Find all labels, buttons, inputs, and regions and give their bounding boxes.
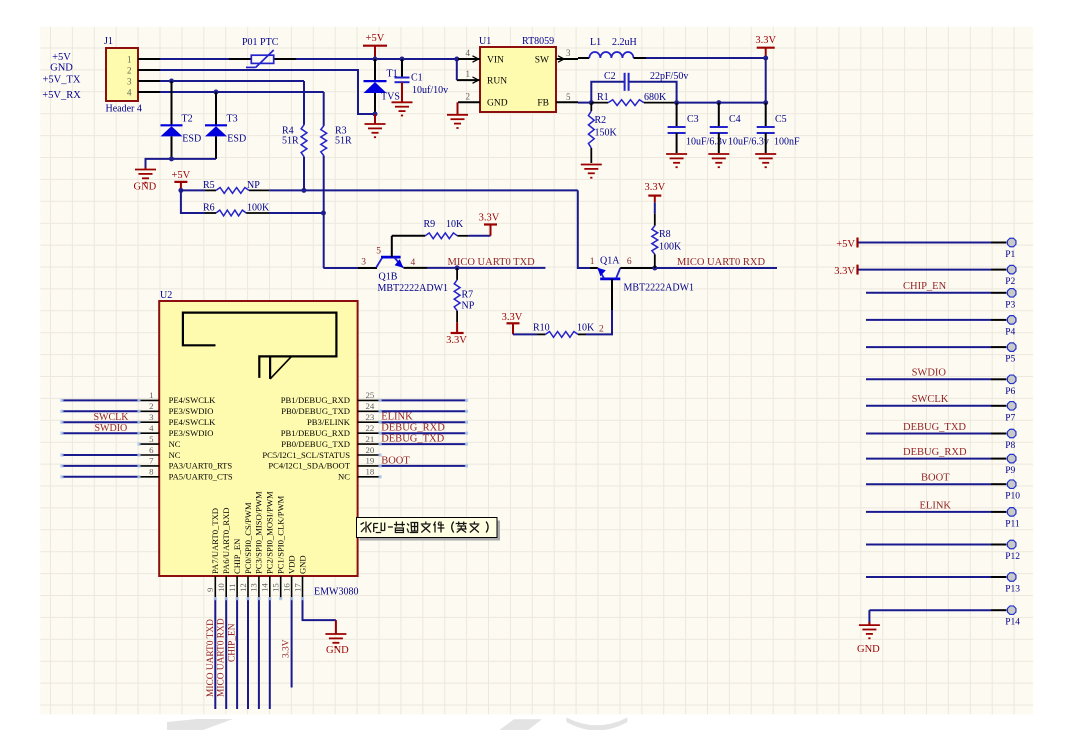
junction C2/C3 node	[674, 100, 679, 105]
junction R7 top	[455, 265, 460, 270]
svg-text:3.3V: 3.3V	[644, 182, 665, 193]
svg-text:1: 1	[149, 390, 153, 400]
svg-text:PE3/SWDIO: PE3/SWDIO	[169, 428, 214, 438]
svg-text:20: 20	[366, 445, 375, 455]
watermark tooltip box	[360, 521, 501, 541]
svg-text:MICO UART0 RXD: MICO UART0 RXD	[217, 618, 227, 697]
U2 pin 11 CHIP_EN	[236, 576, 238, 599]
svg-text:22: 22	[366, 423, 375, 433]
svg-text:CHIP_EN: CHIP_EN	[232, 538, 242, 574]
test pad P5	[866, 346, 991, 348]
resistor R1 680K	[591, 102, 608, 104]
svg-text:PC3/SPI0_MISO/PWM: PC3/SPI0_MISO/PWM	[254, 491, 264, 574]
svg-text:14: 14	[260, 583, 270, 592]
svg-text:PB3/ELINK: PB3/ELINK	[307, 417, 351, 427]
svg-text:U1: U1	[479, 36, 491, 47]
svg-text:2: 2	[599, 325, 604, 335]
svg-text:15: 15	[271, 583, 281, 592]
U2 pin 4 PE3/SWDIO	[139, 432, 159, 434]
wire U2 pin 24	[380, 410, 466, 412]
svg-text:PE4/SWCLK: PE4/SWCLK	[169, 417, 217, 427]
svg-text:TVS: TVS	[381, 92, 400, 103]
power symbol +5V middle	[174, 181, 187, 183]
wire U2 pin 25	[380, 399, 466, 401]
junction +5V/R5/R6	[178, 188, 183, 193]
module U2 EMW3080	[159, 301, 357, 576]
svg-text:5: 5	[376, 247, 381, 257]
svg-text:P12: P12	[1005, 552, 1020, 562]
U1 pin stubs and numbers	[458, 58, 480, 60]
junction R6 / R3 net	[321, 211, 326, 216]
U2 pin 19 PC4/I2C1_SDA/BOOT	[358, 465, 381, 467]
svg-text:23: 23	[366, 412, 375, 422]
svg-text:P3: P3	[1005, 300, 1015, 310]
svg-text:GND: GND	[297, 555, 307, 574]
test pad P8	[866, 433, 991, 435]
U2 pin 18 NC	[358, 476, 381, 478]
power symbol 3.3V at P2	[856, 265, 858, 275]
svg-text:R2: R2	[595, 115, 607, 126]
wire U2 pin 3	[62, 421, 139, 423]
ground below C3	[666, 153, 687, 155]
power symbol 3.3V below R7 (inverted)	[456, 322, 458, 333]
resistor R10 10K	[513, 333, 537, 335]
svg-text:1: 1	[590, 257, 595, 267]
svg-text:10K: 10K	[446, 219, 464, 230]
U2 pin 25 PB1/DEBUG_RXD	[358, 399, 381, 401]
capacitor C5 100nF	[765, 103, 767, 127]
junction C5 node	[763, 100, 768, 105]
svg-text:SWDIO: SWDIO	[912, 368, 947, 379]
svg-text:10uf/10v: 10uf/10v	[412, 85, 448, 96]
resistor R8 100K	[654, 202, 656, 213]
svg-text:7: 7	[149, 456, 154, 466]
svg-text:P11: P11	[1005, 519, 1020, 529]
junction R8 bottom	[652, 266, 657, 271]
U2 pin 13 PC3/SPI0_MISO/PWM	[258, 576, 260, 599]
svg-text:GND: GND	[487, 99, 508, 109]
svg-text:2.2uH: 2.2uH	[612, 37, 637, 48]
wire U2 pin 11 CHIP_EN	[236, 599, 238, 709]
svg-text:1: 1	[127, 55, 132, 65]
test pad P3	[866, 292, 991, 294]
resistor R6 100K	[181, 190, 205, 213]
svg-text:+5V: +5V	[836, 239, 855, 250]
wire R3 column to Q1B base	[323, 267, 358, 269]
svg-text:10uF/6.3v: 10uF/6.3v	[728, 137, 769, 148]
wire U2 pin 16 VDD 3.3V	[291, 599, 293, 688]
resistor R5 NP	[181, 189, 205, 191]
resistor R3 51R	[323, 92, 325, 126]
junction FB/R2/C2	[589, 100, 594, 105]
watermark fragment bottom-middle	[499, 719, 542, 730]
svg-text:NC: NC	[169, 450, 181, 460]
U2 pin 15 PC1/SPI0_CLK/PWM	[280, 576, 282, 599]
wire Q1B emitter / MICO UART0 TXD net	[404, 267, 428, 269]
wire U2 pin 13	[258, 599, 260, 709]
power symbol 3.3V top right	[757, 47, 775, 49]
svg-text:9: 9	[205, 587, 215, 592]
junction T2 bottom	[169, 156, 174, 161]
U2 pin 20 PC5/I2C1_SCL/STATUS	[358, 454, 381, 456]
svg-text:PB0/DEBUG_TXD: PB0/DEBUG_TXD	[281, 406, 350, 416]
svg-text:5: 5	[566, 92, 571, 102]
power symbol 3.3V at R9	[484, 223, 497, 225]
J1 pin stubs	[138, 58, 160, 60]
wire SW to L1	[578, 57, 589, 59]
svg-text:SW: SW	[535, 55, 549, 65]
svg-text:PE4/SWCLK: PE4/SWCLK	[169, 395, 217, 405]
test pad P7	[866, 405, 991, 407]
wire FB row to C4	[677, 102, 719, 104]
svg-text:100nF: 100nF	[774, 137, 800, 148]
svg-text:3: 3	[127, 77, 132, 87]
svg-text:R5: R5	[203, 180, 215, 191]
wire FB pin to R1	[578, 102, 591, 104]
svg-text:PA6/UART0_RXD: PA6/UART0_RXD	[221, 508, 231, 575]
junction +5V/C1	[400, 57, 405, 62]
svg-text:Header 4: Header 4	[106, 104, 142, 115]
wire J1 pin1 to PTC	[160, 58, 229, 60]
wire U2 pin 17 GND	[303, 599, 336, 621]
svg-text:R10: R10	[533, 323, 550, 334]
svg-text:P5: P5	[1005, 355, 1015, 365]
wire-end markers	[137, 399, 140, 402]
svg-text:VIN: VIN	[487, 55, 504, 65]
svg-text:P13: P13	[1005, 585, 1020, 595]
svg-text:22pF/50v: 22pF/50v	[650, 71, 688, 82]
transistor Q1A MBT2222ADW1	[590, 267, 598, 269]
power symbol +5V at P1	[856, 238, 858, 248]
svg-text:+5V: +5V	[172, 170, 191, 181]
wire J1 pin4 to R3	[160, 91, 324, 93]
wire U2 pin 10 MICO UART0 RXD	[225, 599, 227, 709]
svg-text:PC4/I2C1_SDA/BOOT: PC4/I2C1_SDA/BOOT	[268, 461, 350, 471]
ground below C5	[755, 153, 776, 155]
svg-text:2: 2	[466, 91, 471, 101]
svg-text:3.3V: 3.3V	[502, 312, 523, 323]
wire J1 pin3 to R4	[160, 80, 304, 82]
svg-text:T2: T2	[182, 114, 193, 125]
svg-text:150K: 150K	[595, 128, 618, 139]
svg-text:MICO UART0 TXD: MICO UART0 TXD	[206, 619, 216, 697]
svg-text:ELINK: ELINK	[920, 500, 952, 511]
svg-text:MBT2222ADW1: MBT2222ADW1	[624, 283, 695, 294]
svg-text:4: 4	[127, 88, 132, 98]
svg-text:3: 3	[566, 48, 571, 58]
svg-text:2: 2	[127, 66, 132, 76]
wire 3.3V node down to C5/FB row	[765, 58, 767, 103]
wire U2 pin 21	[380, 443, 466, 445]
svg-text:J1: J1	[104, 36, 113, 47]
svg-text:BOOT: BOOT	[381, 455, 410, 466]
junction +5V/RUN branch	[454, 57, 459, 62]
svg-text:C4: C4	[729, 114, 741, 125]
watermark fragment bottom-middle2	[566, 718, 627, 730]
U2 antenna glyph	[183, 313, 337, 378]
svg-text:NC: NC	[338, 472, 350, 482]
U2 pin 9 PA7/UART0_TXD	[214, 576, 216, 599]
svg-text:DEBUG_RXD: DEBUG_RXD	[381, 423, 445, 434]
junction R4 bottom / R5 net	[301, 188, 306, 193]
svg-text:RT8059: RT8059	[522, 36, 554, 47]
svg-text:PC5/I2C1_SCL/STATUS: PC5/I2C1_SCL/STATUS	[262, 450, 350, 460]
test pad P6	[866, 378, 991, 380]
connector J1 (Header 4)	[106, 48, 138, 101]
svg-text:ESD: ESD	[182, 134, 201, 145]
svg-text:PE3/SWDIO: PE3/SWDIO	[169, 406, 214, 416]
svg-text:51R: 51R	[335, 136, 352, 147]
U2 pin 10 PA6/UART0_RXD	[225, 576, 227, 599]
svg-text:P2: P2	[1005, 277, 1015, 287]
U2 pin 5 NC	[139, 443, 159, 445]
U2 pin 22 PB1/DEBUG_RXD	[358, 432, 381, 434]
svg-text:PA7/UART0_TXD: PA7/UART0_TXD	[210, 508, 220, 574]
power symbol 3.3V at R10	[507, 322, 520, 324]
wire FB row to C5	[719, 102, 766, 104]
svg-text:6: 6	[627, 257, 632, 267]
wire U2 pin 6	[62, 454, 139, 456]
svg-text:P1: P1	[1005, 250, 1015, 260]
svg-text:NC: NC	[169, 439, 181, 449]
test pad P10	[866, 483, 991, 485]
U1 GND pin to ground	[457, 102, 459, 114]
svg-text:FB: FB	[537, 99, 549, 109]
test pad P14	[869, 609, 991, 611]
wire U2 pin 7	[62, 465, 139, 467]
resistor R2 150K	[590, 103, 592, 111]
power symbol +5V top	[363, 45, 387, 47]
ground below C1	[401, 82, 403, 102]
svg-text:ESD: ESD	[227, 134, 246, 145]
svg-text:NP: NP	[462, 301, 475, 312]
svg-text:3.3V: 3.3V	[446, 335, 467, 346]
svg-text:ELINK: ELINK	[381, 412, 413, 423]
svg-text:24: 24	[366, 401, 375, 411]
svg-text:GND: GND	[326, 645, 349, 656]
svg-text:3.3V: 3.3V	[755, 35, 776, 46]
wire R10 to Q1A base	[586, 310, 612, 334]
U2 pin 2 PE3/SWDIO	[139, 410, 159, 412]
test pad P9	[866, 458, 991, 460]
svg-text:19: 19	[366, 456, 375, 466]
svg-text:3: 3	[361, 258, 366, 268]
junction TVS/GND	[373, 112, 378, 117]
svg-text:MBT2222ADW1: MBT2222ADW1	[378, 283, 449, 294]
junction C4 node	[716, 100, 721, 105]
svg-text:L1: L1	[590, 37, 601, 48]
svg-text:P9: P9	[1005, 466, 1015, 476]
wire RUN branch from +5V	[456, 59, 458, 80]
svg-text:VDD: VDD	[286, 555, 296, 574]
svg-text:SWCLK: SWCLK	[912, 394, 949, 405]
svg-text:P8: P8	[1005, 441, 1015, 451]
wire U2 pin 1	[62, 399, 139, 401]
svg-text:+5V: +5V	[366, 33, 385, 44]
svg-text:R6: R6	[203, 203, 215, 214]
svg-text:U2: U2	[160, 290, 172, 301]
ground below TVS	[374, 114, 376, 124]
svg-text:680K: 680K	[644, 92, 667, 103]
inductor L1 2.2uH	[589, 52, 633, 58]
ground below U1 GND	[447, 114, 468, 116]
wire T2/T3 commons to ground	[146, 159, 217, 168]
svg-text:DEBUG_RXD: DEBUG_RXD	[903, 447, 967, 458]
capacitor C3 10uF/6.3v	[676, 103, 678, 127]
svg-text:3.3V: 3.3V	[281, 639, 291, 658]
svg-text:PA5/UART0_CTS: PA5/UART0_CTS	[169, 472, 233, 482]
svg-text:MICO UART0 TXD: MICO UART0 TXD	[448, 257, 536, 268]
svg-text:Q1A: Q1A	[600, 256, 620, 267]
U1 input arrows on VIN and RUN	[473, 56, 479, 62]
svg-text:17: 17	[292, 583, 302, 592]
U2 pin 21 PB0/DEBUG_TXD	[358, 443, 381, 445]
svg-text:6: 6	[149, 445, 154, 455]
svg-text:GND: GND	[134, 182, 157, 193]
svg-text:12: 12	[238, 583, 248, 592]
svg-text:MICO UART0 RXD: MICO UART0 RXD	[677, 257, 765, 268]
svg-text:Q1B: Q1B	[379, 272, 398, 283]
svg-text:CHIP_EN: CHIP_EN	[228, 623, 238, 662]
svg-text:13: 13	[249, 583, 259, 592]
svg-text:11: 11	[227, 584, 237, 592]
resistor R9 10K	[425, 233, 457, 239]
wire U2 pin 12	[247, 599, 249, 709]
svg-text:BOOT: BOOT	[921, 473, 950, 484]
svg-text:DEBUG_TXD: DEBUG_TXD	[903, 422, 966, 433]
capacitor C2 22pF/50v bridge	[591, 82, 624, 103]
svg-text:3.3V: 3.3V	[479, 212, 500, 223]
watermark fragment bottom-left	[167, 719, 233, 730]
svg-text:8: 8	[149, 467, 154, 477]
svg-text:SWCLK: SWCLK	[94, 412, 130, 423]
resistor R4 51R	[303, 81, 305, 125]
svg-text:+5V_RX: +5V_RX	[42, 90, 81, 101]
svg-text:+5V_TX: +5V_TX	[42, 74, 80, 85]
svg-text:4: 4	[149, 423, 154, 433]
svg-text:PB0/DEBUG_TXD: PB0/DEBUG_TXD	[281, 439, 350, 449]
svg-text:C5: C5	[775, 114, 787, 125]
svg-text:100K: 100K	[247, 203, 270, 214]
fuse P01 PTC	[229, 58, 251, 60]
ESD diode T2	[171, 81, 173, 125]
svg-text:GND: GND	[50, 62, 73, 73]
svg-text:C1: C1	[411, 73, 423, 84]
ground for T2/T3	[145, 168, 147, 170]
junction J1 pin4 / T3	[214, 90, 219, 95]
svg-text:10uF/6.3v: 10uF/6.3v	[686, 137, 727, 148]
U2 pin 23 PB3/ELINK	[358, 421, 381, 423]
ESD diode T3	[215, 92, 217, 125]
ground at U2 pin 17	[335, 620, 337, 634]
svg-text:51R: 51R	[282, 136, 299, 147]
U2 pin 16 VDD	[291, 576, 293, 599]
svg-text:1: 1	[466, 69, 471, 79]
U2 pin 6 NC	[139, 454, 159, 456]
transistor Q1B MBT2222ADW1	[358, 267, 377, 269]
ground below R2	[581, 164, 602, 166]
wire R5 to Q1A emitter column	[269, 189, 578, 191]
svg-text:CHIP_EN: CHIP_EN	[903, 281, 947, 292]
U2 pin 12 PC0/SPI0_CS/PWM	[247, 576, 249, 599]
test pad P1	[858, 242, 991, 244]
wire Q1B collector to R9	[392, 235, 425, 237]
svg-text:RUN: RUN	[487, 76, 507, 86]
wire U2 pin 14	[269, 599, 271, 709]
svg-text:3.3V: 3.3V	[834, 266, 855, 277]
svg-text:10K: 10K	[577, 323, 595, 334]
svg-text:C2: C2	[604, 71, 616, 82]
wire U2 pin 19	[380, 465, 466, 467]
svg-text:21: 21	[366, 434, 375, 444]
wire U2 pin 4	[62, 432, 139, 434]
svg-text:PB1/DEBUG_RXD: PB1/DEBUG_RXD	[281, 395, 350, 405]
svg-text:16: 16	[281, 583, 291, 592]
wire U2 pin 8	[62, 476, 139, 478]
ground below C4	[708, 153, 729, 155]
svg-text:100K: 100K	[659, 242, 682, 253]
svg-text:4: 4	[411, 258, 416, 268]
test pad P12	[866, 544, 991, 546]
svg-text:4: 4	[466, 48, 471, 58]
regulator U1 RT8059	[480, 47, 556, 112]
resistor R7 NP	[456, 268, 458, 280]
wire down to Q1A emitter	[578, 190, 590, 268]
svg-text:3: 3	[149, 412, 154, 422]
U2 pin 1 PE4/SWCLK	[139, 399, 159, 401]
wire J1 pin2 (GND net) to TVS bottom	[160, 70, 375, 114]
svg-text:P6: P6	[1005, 387, 1015, 397]
svg-text:T3: T3	[227, 114, 238, 125]
svg-text:DEBUG_TXD: DEBUG_TXD	[381, 434, 444, 445]
svg-text:10: 10	[216, 583, 226, 592]
svg-text:R7: R7	[462, 290, 474, 301]
svg-text:R9: R9	[424, 219, 436, 230]
U1 output arrow on SW	[558, 56, 564, 62]
svg-text:P10: P10	[1005, 492, 1020, 502]
test pad P13	[866, 576, 991, 578]
capacitor C4 10uF/6.3v	[718, 103, 720, 127]
U2 pin 8 PA5/UART0_CTS	[139, 476, 159, 478]
svg-text:2: 2	[149, 401, 153, 411]
TVS diode T1	[374, 59, 376, 81]
svg-text:18: 18	[366, 467, 375, 477]
test pad P2	[858, 269, 991, 271]
wire U2 pin 9 MICO UART0 TXD	[214, 599, 216, 709]
wire Q1A collector / MICO UART0 RXD net	[620, 267, 655, 269]
test pad P4	[866, 319, 991, 321]
capacitor C1 10uf/10v	[401, 59, 403, 78]
svg-text:NP: NP	[247, 180, 260, 191]
svg-text:PC2/SPI0_MOSI/PWM: PC2/SPI0_MOSI/PWM	[265, 491, 275, 574]
svg-text:C3: C3	[687, 114, 699, 125]
wire PTC to U1 VIN (+5V rail)	[296, 58, 458, 60]
svg-text:PC0/SPI0_CS/PWM: PC0/SPI0_CS/PWM	[243, 502, 253, 574]
watermark tooltip text (CJK approximated)	[361, 522, 372, 533]
svg-text:PB1/DEBUG_RXD: PB1/DEBUG_RXD	[281, 428, 350, 438]
svg-text:GND: GND	[857, 644, 880, 655]
junction 3.3V rail	[763, 56, 768, 61]
power symbol 3.3V at R8	[648, 195, 661, 197]
svg-text:PA3/UART0_RTS: PA3/UART0_RTS	[169, 461, 233, 471]
svg-text:5: 5	[149, 434, 154, 444]
test pad P11	[866, 511, 991, 513]
svg-text:P7: P7	[1005, 413, 1015, 423]
U2 pin 24 PB0/DEBUG_TXD	[358, 410, 381, 412]
U2 pin 3 PE4/SWCLK	[139, 421, 159, 423]
wire U2 pin 23	[380, 421, 466, 423]
svg-text:P4: P4	[1005, 327, 1015, 337]
